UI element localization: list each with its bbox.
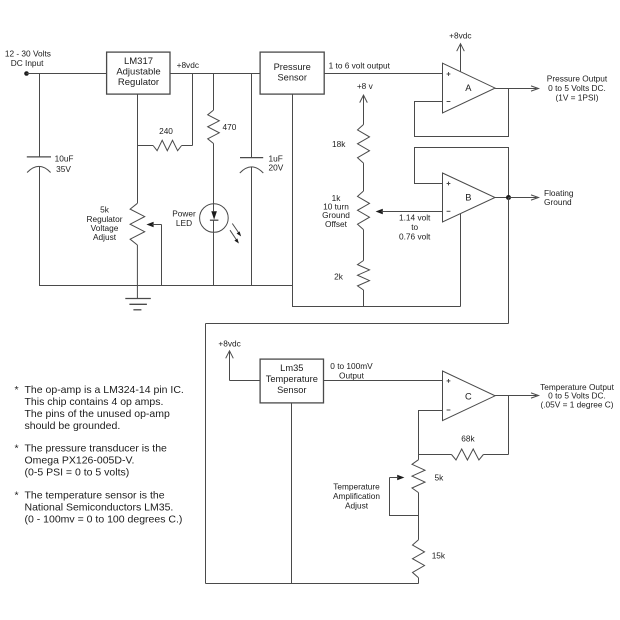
node DC input label bbox=[5, 49, 51, 69]
svg-text:Offset: Offset bbox=[325, 219, 348, 229]
wire LM317 adj pin down bbox=[137, 94, 139, 203]
svg-text:B: B bbox=[465, 192, 471, 202]
wire floating ground top rail bbox=[206, 323, 509, 325]
wire op-amp B minus branch down bbox=[460, 214, 462, 307]
wire 240 to +8vdc rail bbox=[192, 74, 194, 146]
wire pressure sensor output to op-amp A bbox=[324, 73, 442, 75]
op-amp U1C bbox=[443, 371, 496, 421]
node pressure output label bbox=[547, 74, 608, 103]
svg-text:Omega PX126-005D-V.: Omega PX126-005D-V. bbox=[25, 455, 135, 467]
svg-text:Pressure: Pressure bbox=[274, 62, 311, 72]
node notes text block bbox=[15, 384, 184, 526]
wire pressure sensor ground pin bbox=[292, 94, 294, 306]
svg-text:National Semiconductors LM35.: National Semiconductors LM35. bbox=[25, 502, 174, 514]
wire bottom section left edge bbox=[205, 324, 207, 584]
node 1.14 volt label bbox=[399, 213, 431, 242]
svg-text:The pins of the unused op-amp: The pins of the unused op-amp bbox=[25, 408, 171, 420]
wire 18k to 1k bbox=[363, 163, 365, 191]
svg-text:The pressure transducer is the: The pressure transducer is the bbox=[25, 443, 168, 455]
wire op-amp C minus to feedback junction bbox=[419, 411, 443, 455]
wire Lm35 output to op-amp C bbox=[324, 380, 443, 382]
node input terminal dot bbox=[24, 71, 29, 76]
svg-text:+8vdc: +8vdc bbox=[218, 339, 240, 349]
node floating ground junction dot bbox=[506, 195, 511, 200]
svg-text:10uF: 10uF bbox=[55, 154, 74, 164]
svg-text:(0-5 PSI = 0 to 5 volts): (0-5 PSI = 0 to 5 volts) bbox=[25, 467, 130, 479]
svg-text:(0 - 100mv = 0 to 100 degrees: (0 - 100mv = 0 to 100 degrees C.) bbox=[25, 514, 183, 526]
svg-text:should be grounded.: should be grounded. bbox=[25, 420, 121, 432]
wire bottom section bottom rail bbox=[206, 583, 419, 585]
potentiometer 5k temperature amplification bbox=[412, 455, 444, 493]
svg-text:Pressure Output: Pressure Output bbox=[547, 74, 608, 84]
svg-text:18k: 18k bbox=[332, 139, 346, 149]
svg-text:Lm35: Lm35 bbox=[280, 363, 303, 373]
node 0 to 100mV output label bbox=[330, 361, 373, 380]
wire 470 to LED bbox=[213, 144, 215, 204]
resistor R 68k feedback bbox=[419, 434, 509, 461]
resistor R 2k bbox=[334, 261, 369, 291]
capacitor 10uF 35V bbox=[27, 154, 74, 286]
sensor Lm35 temperature box bbox=[260, 359, 323, 403]
op-amp U1A bbox=[443, 63, 496, 113]
wire rail to 470 bbox=[213, 74, 215, 111]
svg-text:+8vdc: +8vdc bbox=[177, 60, 199, 70]
svg-text:+8vdc: +8vdc bbox=[449, 31, 471, 41]
op-amp U1B bbox=[443, 173, 496, 222]
node floating ground label bbox=[544, 188, 574, 207]
svg-text:15k: 15k bbox=[432, 551, 446, 561]
potentiometer 1k 10 turn ground offset bbox=[322, 191, 369, 230]
LED light arrow 1 bbox=[232, 224, 241, 237]
wire 5k pot wiper bbox=[146, 222, 161, 286]
wire floating ground output arrow bbox=[509, 195, 539, 200]
node temperature amplification adjust label bbox=[333, 481, 380, 510]
svg-text:35V: 35V bbox=[56, 164, 71, 174]
LED light arrow 2 bbox=[230, 230, 239, 243]
svg-text:5k: 5k bbox=[435, 473, 445, 483]
wire 1k wiper to op-amp B minus input bbox=[376, 209, 443, 215]
wire op-amp A power arrow bbox=[457, 44, 465, 72]
wire input cap branch bbox=[39, 74, 41, 157]
wire 68k to op-amp C output bbox=[508, 396, 510, 455]
svg-text:Sensor: Sensor bbox=[277, 385, 306, 395]
wire Lm35 power arrow bbox=[226, 351, 260, 381]
wire 2k to floating rail bbox=[363, 290, 365, 307]
node temperature output label bbox=[540, 382, 614, 410]
wire rail to 1uF cap bbox=[251, 74, 253, 158]
svg-text:Temperature: Temperature bbox=[333, 481, 380, 491]
wire 5k to 15k bbox=[418, 493, 420, 540]
svg-text:470: 470 bbox=[223, 122, 237, 132]
potentiometer 5k regulator voltage adjust bbox=[87, 203, 145, 245]
wire op-amp A output arrow bbox=[495, 86, 538, 91]
resistor R 240 bbox=[138, 126, 193, 151]
wire op-amp B output down to bottom section bbox=[508, 198, 510, 324]
svg-text:LED: LED bbox=[176, 218, 192, 228]
wire op-amp C output arrow bbox=[495, 393, 538, 398]
svg-text:A: A bbox=[465, 83, 472, 93]
sensor pressure box bbox=[260, 52, 324, 94]
svg-text:Ground: Ground bbox=[544, 197, 572, 207]
svg-text:Adjust: Adjust bbox=[93, 232, 117, 242]
LED D1 power bbox=[172, 204, 228, 233]
regulator U LM317 box bbox=[107, 52, 170, 94]
wire +8vdc rail LM317 to Pressure Sensor bbox=[170, 73, 260, 75]
svg-text:Adjustable: Adjustable bbox=[116, 67, 160, 78]
resistor R 18k bbox=[332, 125, 369, 164]
svg-text:20V: 20V bbox=[269, 162, 284, 172]
wire op-amp B feedback loop bbox=[415, 148, 509, 198]
svg-text:C: C bbox=[465, 391, 472, 401]
resistor R 15k bbox=[413, 540, 446, 578]
wire op-amp A feedback loop bbox=[415, 89, 509, 137]
capacitor 1uF 20V bbox=[240, 154, 284, 286]
svg-text:2k: 2k bbox=[334, 272, 344, 282]
svg-text:240: 240 bbox=[159, 126, 173, 136]
wire 5k pot wiper return bbox=[390, 475, 419, 516]
svg-text:LM317: LM317 bbox=[124, 56, 153, 67]
wire 5k pot bottom bbox=[136, 245, 138, 299]
wire divider bottom rail bbox=[292, 306, 461, 308]
svg-text:68k: 68k bbox=[461, 434, 475, 444]
ground bbox=[125, 299, 151, 310]
svg-text:+8 v: +8 v bbox=[357, 81, 374, 91]
svg-text:Amplification: Amplification bbox=[333, 491, 380, 501]
wire input rail to LM317 bbox=[27, 73, 107, 75]
svg-text:Temperature: Temperature bbox=[266, 374, 318, 384]
svg-text:(.05V = 1 degree C): (.05V = 1 degree C) bbox=[540, 399, 613, 409]
resistor R 470 bbox=[208, 110, 237, 143]
wire Lm35 ground pin bbox=[291, 403, 293, 584]
svg-text:12 - 30 Volts: 12 - 30 Volts bbox=[5, 49, 51, 59]
wire left section bottom rail bbox=[39, 285, 293, 287]
svg-text:Regulator: Regulator bbox=[118, 77, 159, 88]
svg-text:*: * bbox=[15, 384, 19, 396]
svg-text:1 to 6 volt output: 1 to 6 volt output bbox=[329, 61, 391, 71]
svg-text:Sensor: Sensor bbox=[277, 72, 306, 82]
svg-text:Power: Power bbox=[172, 208, 196, 218]
wire +8v arrow bbox=[360, 95, 368, 124]
svg-text:DC Input: DC Input bbox=[11, 58, 44, 68]
svg-text:Output: Output bbox=[339, 370, 365, 380]
wire 1k to 2k bbox=[363, 230, 365, 261]
wire op-amp B output bbox=[495, 197, 509, 199]
svg-text:(1V = 1PSI): (1V = 1PSI) bbox=[555, 92, 598, 102]
svg-text:0.76 volt: 0.76 volt bbox=[399, 231, 431, 241]
svg-text:*: * bbox=[15, 490, 19, 502]
svg-text:The temperature sensor is the: The temperature sensor is the bbox=[25, 490, 165, 502]
svg-text:Adjust: Adjust bbox=[345, 501, 369, 511]
wire LED to bottom rail bbox=[213, 232, 215, 285]
svg-text:*: * bbox=[15, 443, 19, 455]
svg-text:This chip contains 4 op amps.: This chip contains 4 op amps. bbox=[25, 396, 164, 408]
wire 15k to bottom rail bbox=[418, 578, 420, 584]
svg-text:The op-amp is a LM324-14 pin I: The op-amp is a LM324-14 pin IC. bbox=[25, 384, 184, 396]
